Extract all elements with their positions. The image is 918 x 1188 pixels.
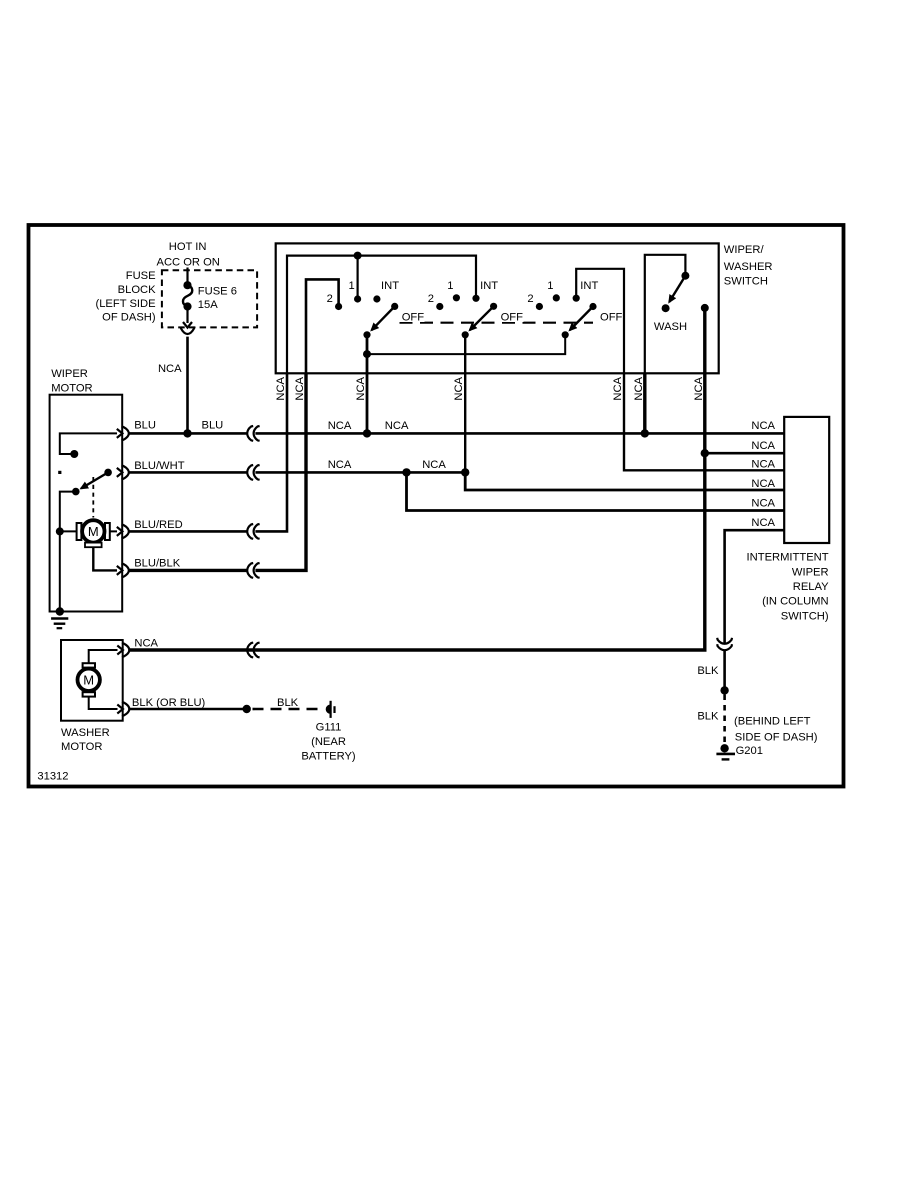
wire NCA switch1-common to BLU row bbox=[366, 335, 369, 434]
svg-text:NCA: NCA bbox=[693, 376, 705, 400]
wire washer motor to NCA row bbox=[89, 650, 118, 663]
svg-text:NCA: NCA bbox=[134, 638, 158, 650]
wire BLU/WHT row bbox=[129, 459, 465, 472]
connector break on BLU/RED row bbox=[247, 524, 259, 539]
labels NCA on verticals below switch bbox=[275, 376, 705, 400]
node rail junction bbox=[354, 252, 362, 260]
node park contact A bbox=[70, 450, 78, 458]
svg-text:RELAY: RELAY bbox=[793, 581, 829, 593]
wire rail drop to switch1 contact 1 bbox=[357, 256, 359, 299]
svg-text:BATTERY): BATTERY) bbox=[301, 750, 356, 762]
svg-text:NCA: NCA bbox=[751, 498, 775, 510]
ground G201 bbox=[716, 715, 817, 759]
svg-text:NCA: NCA bbox=[751, 420, 775, 432]
svg-text:M: M bbox=[83, 673, 94, 688]
wire BLU/RED row bbox=[129, 373, 287, 531]
wire NCA wash feed down to BLU row bbox=[643, 373, 646, 433]
park switch arm bbox=[72, 469, 112, 496]
svg-text:INT: INT bbox=[480, 280, 498, 292]
connector male-female BLU/BLK at wiper motor bbox=[117, 563, 129, 577]
svg-text:OFF: OFF bbox=[402, 312, 425, 324]
svg-text:WIPER/: WIPER/ bbox=[724, 244, 765, 256]
svg-text:(BEHIND LEFT: (BEHIND LEFT bbox=[734, 715, 811, 727]
wire NCA wash output down to washer motor row bbox=[129, 308, 705, 650]
node BLU/wash-feed junction bbox=[641, 429, 649, 437]
wire to relay pin5 bbox=[407, 472, 785, 510]
svg-text:NCA: NCA bbox=[751, 440, 775, 452]
node BLK splice bbox=[720, 686, 728, 694]
wire BLK (OR BLU) from washer motor bbox=[129, 697, 246, 709]
svg-text:MOTOR: MOTOR bbox=[61, 741, 102, 753]
wire motor row bbox=[60, 530, 117, 532]
svg-text:INTERMITTENT: INTERMITTENT bbox=[747, 552, 829, 564]
node BLU/WHT junction to relay pin5 bbox=[402, 468, 410, 476]
switch section 2 (intermittent) bbox=[428, 280, 524, 338]
ground G111 bbox=[301, 701, 356, 763]
svg-text:(IN COLUMN: (IN COLUMN bbox=[762, 596, 829, 608]
svg-text:(NEAR: (NEAR bbox=[311, 736, 346, 748]
wire top rail (feed to contacts) bbox=[287, 256, 476, 374]
svg-text:BLK: BLK bbox=[277, 697, 299, 709]
motor M1 wiper bbox=[77, 520, 110, 547]
svg-text:BLK (OR BLU): BLK (OR BLU) bbox=[132, 697, 206, 709]
svg-text:NCA: NCA bbox=[612, 376, 624, 400]
connector male-female NCA at washer motor bbox=[117, 643, 129, 657]
wire relay pin6 BLK to ground bbox=[697, 530, 784, 690]
svg-text:M: M bbox=[88, 524, 99, 539]
wire park common to ground bbox=[60, 492, 76, 612]
svg-text:FUSE: FUSE bbox=[126, 270, 156, 282]
SECTION: frame bbox=[29, 225, 844, 787]
svg-text:SWITCH: SWITCH bbox=[724, 275, 768, 287]
svg-text:BLK: BLK bbox=[697, 711, 719, 723]
mechanical link dashed (motor to park switch) bbox=[92, 477, 94, 518]
wire motor to BLU/BLK bbox=[93, 547, 117, 570]
wire BLU/BLK row bbox=[129, 373, 306, 570]
svg-text:NCA: NCA bbox=[751, 517, 775, 529]
washer motor box bbox=[61, 640, 123, 753]
svg-text:2: 2 bbox=[527, 293, 533, 305]
wire from HOT IN to fuse bbox=[186, 268, 188, 286]
svg-text:NCA: NCA bbox=[275, 376, 287, 400]
svg-text:1: 1 bbox=[447, 280, 453, 292]
node BLK splice at washer bbox=[243, 705, 251, 713]
connector male-female BLU/WHT at wiper motor bbox=[117, 465, 129, 479]
svg-text:G111: G111 bbox=[316, 722, 342, 734]
connector break on BLK drop (vertical) bbox=[717, 638, 732, 650]
svg-text:MOTOR: MOTOR bbox=[51, 382, 92, 394]
svg-text:OF DASH): OF DASH) bbox=[102, 312, 156, 324]
connector male-female at fuse block output bbox=[180, 307, 194, 335]
svg-text:WIPER: WIPER bbox=[792, 567, 829, 579]
svg-text:BLU: BLU bbox=[202, 420, 224, 432]
svg-text:31312: 31312 bbox=[37, 771, 68, 783]
mechanical link dashed OFF line bbox=[400, 322, 594, 324]
switch section 1 (wiper speed) bbox=[327, 280, 425, 338]
wire NCA from fuse to BLU junction bbox=[158, 337, 188, 434]
svg-text:OFF: OFF bbox=[501, 312, 524, 324]
svg-text:NCA: NCA bbox=[355, 376, 367, 400]
svg-text:WASH: WASH bbox=[654, 321, 687, 333]
svg-text:2: 2 bbox=[428, 293, 434, 305]
switch section 3 (washer interlock) bbox=[527, 280, 622, 338]
svg-text:BLU/RED: BLU/RED bbox=[134, 519, 183, 531]
svg-text:INT: INT bbox=[580, 280, 598, 292]
node HOT IN ACC OR ON bbox=[156, 241, 219, 269]
svg-text:FUSE 6: FUSE 6 bbox=[198, 285, 237, 297]
svg-text:BLU/BLK: BLU/BLK bbox=[134, 557, 181, 569]
wire to relay pin4 bbox=[465, 472, 784, 490]
svg-text:ACC OR ON: ACC OR ON bbox=[156, 257, 219, 269]
svg-text:BLK: BLK bbox=[697, 665, 719, 677]
wiper/washer switch box bbox=[276, 243, 773, 373]
svg-text:HOT IN: HOT IN bbox=[169, 241, 207, 253]
svg-text:NCA: NCA bbox=[453, 376, 465, 400]
svg-text:(LEFT SIDE: (LEFT SIDE bbox=[95, 298, 155, 310]
node motor feed junction bbox=[56, 527, 64, 535]
wire NCA switch3-INT down to relay pin3 row bbox=[624, 373, 784, 470]
svg-text:NCA: NCA bbox=[385, 420, 409, 432]
svg-text:BLOCK: BLOCK bbox=[118, 284, 156, 296]
wire park feed (BLU internal) bbox=[60, 433, 117, 454]
node BLU/switch1 junction bbox=[363, 429, 371, 437]
svg-text:BLU: BLU bbox=[134, 420, 156, 432]
svg-text:NCA: NCA bbox=[422, 459, 446, 471]
connector break on washer NCA row bbox=[247, 643, 259, 658]
wire relay pin2 bbox=[705, 452, 785, 455]
node junction below switch1 common bbox=[363, 350, 371, 358]
svg-text:NCA: NCA bbox=[158, 363, 182, 375]
svg-text:NCA: NCA bbox=[751, 458, 775, 470]
svg-text:SWITCH): SWITCH) bbox=[781, 610, 829, 622]
labels NCA at relay pins bbox=[751, 420, 775, 529]
motor M2 washer bbox=[78, 663, 100, 696]
wire NCA switch2-common to BLU/WHT row bbox=[464, 335, 466, 473]
node BLU/WHT junction to relay pin4 bbox=[461, 468, 469, 476]
svg-text:1: 1 bbox=[547, 280, 553, 292]
node wash output to relay pin2 junction bbox=[701, 449, 709, 457]
wire switch1 contact 2 to BLU/BLK vertical bbox=[306, 279, 339, 373]
svg-text:1: 1 bbox=[349, 280, 355, 292]
svg-text:OFF: OFF bbox=[600, 312, 623, 324]
fuse block (dashed box) bbox=[95, 270, 257, 327]
connector male-female BLK at washer motor bbox=[117, 702, 129, 716]
connector break on BLU/BLK row bbox=[247, 563, 259, 578]
wire washer motor to BLK row bbox=[89, 697, 118, 709]
wire BLK dashed to G111 bbox=[253, 697, 320, 709]
svg-text:15A: 15A bbox=[198, 299, 218, 311]
svg-text:WIPER: WIPER bbox=[51, 368, 88, 380]
svg-text:BLU/WHT: BLU/WHT bbox=[134, 460, 185, 472]
intermittent wiper relay box bbox=[747, 417, 830, 623]
node BLU/fuse junction bbox=[183, 429, 191, 437]
connector break on BLU row bbox=[247, 426, 259, 441]
connector male-female BLU/RED at wiper motor bbox=[117, 524, 129, 538]
svg-text:NCA: NCA bbox=[294, 376, 306, 400]
svg-text:2: 2 bbox=[327, 293, 333, 305]
svg-text:G201: G201 bbox=[736, 745, 763, 757]
svg-text:WASHER: WASHER bbox=[61, 727, 110, 739]
svg-text:NCA: NCA bbox=[633, 376, 645, 400]
svg-text:SIDE OF DASH): SIDE OF DASH) bbox=[735, 732, 818, 744]
connector break on BLU/WHT row bbox=[247, 465, 259, 480]
wire BLK dashed to G201 bbox=[697, 695, 724, 746]
svg-text:INT: INT bbox=[381, 280, 399, 292]
svg-text:NCA: NCA bbox=[328, 459, 352, 471]
svg-text:NCA: NCA bbox=[751, 478, 775, 490]
fuse FUSE 6 15A bbox=[183, 281, 237, 311]
ground (wiper motor case) bbox=[51, 607, 68, 628]
svg-text:WASHER: WASHER bbox=[724, 261, 773, 273]
wash switch bbox=[645, 255, 709, 373]
node park contact B (square) bbox=[58, 471, 61, 474]
wiper motor box bbox=[50, 368, 123, 611]
wire switch3 INT to relay vertical bbox=[576, 269, 624, 374]
wire BLU row to relay pin1 bbox=[129, 420, 785, 434]
wire common rail between switch sections bbox=[367, 335, 565, 354]
connector male-female BLU at wiper motor bbox=[117, 426, 129, 440]
svg-text:NCA: NCA bbox=[328, 420, 352, 432]
